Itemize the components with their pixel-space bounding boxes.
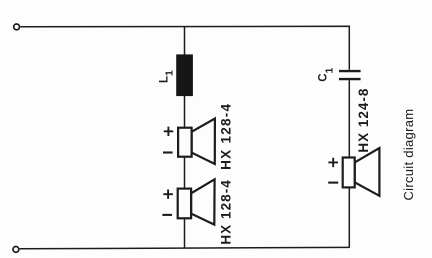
- LS1 plus: [164, 127, 174, 136]
- speaker LS3 (tweeter) horn: [355, 148, 380, 196]
- LS3 minus: [328, 182, 338, 184]
- LS2 plus: [163, 190, 173, 199]
- LS1 minus: [163, 151, 173, 153]
- wire right branch vertical below capacitor to bottom rail: [348, 80, 350, 248]
- svg-text:Circuit diagram: Circuit diagram: [401, 109, 416, 201]
- svg-text:HX 128-4: HX 128-4: [218, 179, 233, 244]
- LS3 plus: [328, 158, 338, 167]
- speaker LS1 body: [178, 128, 192, 157]
- speaker LS2 body: [178, 189, 191, 219]
- inductor L1 (solid bar): [176, 54, 193, 96]
- svg-text:HX 124-8: HX 124-8: [356, 88, 371, 153]
- wire left branch vertical (through L1 and both woofers): [184, 27, 186, 249]
- terminal T2 (bottom-left input): [13, 247, 19, 253]
- terminal T1 (top-left input): [14, 24, 20, 30]
- capacitor C1 plates: [339, 71, 361, 79]
- svg-text:HX 128-4: HX 128-4: [219, 103, 234, 170]
- speaker LS3 body: [343, 158, 355, 188]
- speaker LS1 horn: [192, 119, 215, 165]
- wire bottom rail from T2 to bottom-right corner: [20, 247, 350, 248]
- LS2 minus: [162, 214, 172, 216]
- speaker LS2 horn: [191, 179, 215, 224]
- wire top rail from T1 to top-right corner, down to capacitor: [20, 26, 349, 70]
